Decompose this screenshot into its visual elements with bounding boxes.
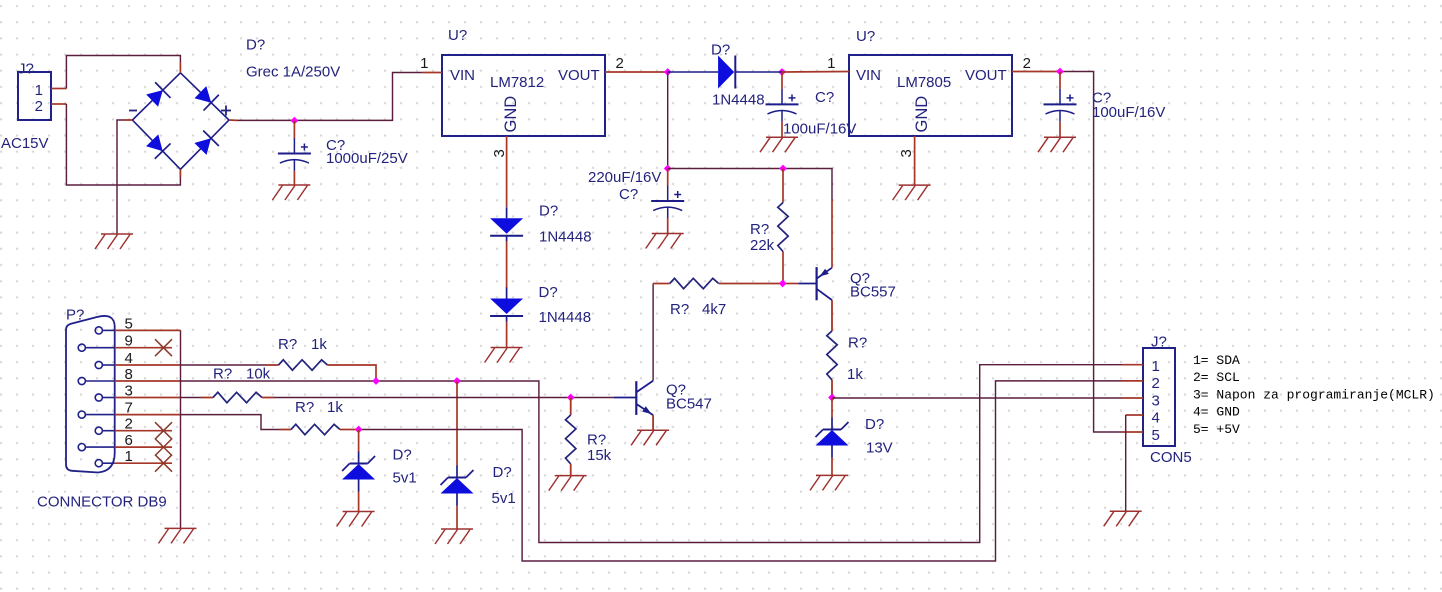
no-connect X on P1 pin 1 <box>155 455 172 472</box>
U1 label U? <box>448 27 467 44</box>
capacitor C1 value 1000uF/25V <box>326 150 408 167</box>
svg-text:CON5: CON5 <box>1150 449 1192 466</box>
wire diode D1 to diode D2 <box>506 241 508 288</box>
ground (D4) <box>810 475 848 490</box>
P1 pin 9 stub <box>115 347 172 349</box>
P1 pin 4 stub <box>115 364 181 366</box>
wire J1.1 to bridge AC top <box>66 56 180 89</box>
svg-text:VIN: VIN <box>856 67 881 84</box>
resistor R5 label R? <box>213 366 232 383</box>
svg-text:VOUT: VOUT <box>558 67 600 84</box>
Q2 emitter to ground <box>652 415 654 430</box>
svg-text:3: 3 <box>898 149 915 157</box>
bridge plus label <box>221 106 231 116</box>
svg-text:R?: R? <box>670 301 689 318</box>
J3 legend line 5 <box>1193 422 1240 437</box>
resistor R2 label R? <box>670 301 689 318</box>
connector J1 pin 2 stub <box>51 103 66 105</box>
wire 4k7 to BC557 base <box>783 283 799 285</box>
svg-text:1: 1 <box>420 55 428 72</box>
capacitor C3 100uF/16V <box>1044 72 1077 138</box>
zener D6 value 5v1 <box>492 490 516 507</box>
J3 pin 2 stub <box>1122 380 1143 382</box>
no-connect X on P1 pin 2 <box>155 422 172 439</box>
U1 pin 3 stub <box>506 136 508 162</box>
svg-text:1N4448: 1N4448 <box>712 92 765 109</box>
svg-text:5v1: 5v1 <box>393 470 417 487</box>
wire P1.4 to R4 <box>181 364 267 366</box>
resistor R6 label R? <box>587 432 606 449</box>
J3 pin 1 stub <box>1122 364 1143 366</box>
svg-text:U?: U? <box>448 27 467 44</box>
junction C1 tap <box>291 117 299 125</box>
resistor R1 22k <box>778 169 788 284</box>
svg-text:GND: GND <box>502 96 520 133</box>
zener D4 label D? <box>865 416 884 433</box>
svg-text:22k: 22k <box>750 237 775 254</box>
svg-text:GND: GND <box>913 96 931 133</box>
diode D3 label D? <box>711 42 730 59</box>
svg-text:J?: J? <box>1151 334 1167 351</box>
ground (bridge minus) <box>95 234 133 249</box>
svg-text:5= +5V: 5= +5V <box>1193 422 1240 437</box>
resistor R4 1k <box>267 360 340 370</box>
ground (R6) <box>549 476 587 491</box>
svg-text:D?: D? <box>539 203 558 220</box>
ground (J3.4) <box>1104 511 1142 526</box>
svg-text:4= GND: 4= GND <box>1193 405 1240 420</box>
J3 pin 1 number <box>1152 358 1160 375</box>
svg-text:10k: 10k <box>246 366 271 383</box>
svg-text:1: 1 <box>1152 358 1160 375</box>
P1 pin 5 circle <box>95 327 114 334</box>
resistor R6 15k <box>566 398 576 476</box>
P1 pin 7 number <box>125 400 133 417</box>
svg-text:R?: R? <box>295 399 314 416</box>
P1 pin 5 stub <box>115 329 181 331</box>
wire pin8 net to zener D6 <box>456 381 458 466</box>
svg-text:D?: D? <box>865 416 884 433</box>
wire BC547 collector up <box>653 284 670 381</box>
resistor R7 value 1k <box>327 399 343 416</box>
P1 pin 6 number <box>125 432 133 449</box>
svg-text:13V: 13V <box>866 440 893 457</box>
transistor Q2 label Q? <box>666 382 686 399</box>
svg-text:5: 5 <box>1152 427 1160 444</box>
resistor R4 label R? <box>278 336 297 353</box>
svg-text:2= SCL: 2= SCL <box>1193 370 1240 385</box>
svg-text:1: 1 <box>827 55 835 72</box>
zener D5 value 5v1 <box>393 470 417 487</box>
P1 pin 5 number <box>125 315 133 332</box>
ground (D6) <box>435 529 473 544</box>
svg-text:C?: C? <box>619 186 638 203</box>
svg-text:100uF/16V: 100uF/16V <box>783 121 856 138</box>
P1 pin 4 number <box>125 350 133 367</box>
wire junction to zener D5 <box>358 430 360 452</box>
U2 pin 3 number (rotated) <box>898 149 915 157</box>
wire bridge minus to ground <box>117 120 124 234</box>
svg-text:D?: D? <box>539 284 558 301</box>
P1 pin 2 circle <box>95 427 114 434</box>
svg-text:1N4448: 1N4448 <box>539 229 592 246</box>
connector P1 label P? <box>66 307 84 324</box>
svg-text:BC557: BC557 <box>850 284 896 301</box>
junction 220uF tap <box>664 165 672 173</box>
svg-text:2: 2 <box>35 98 43 115</box>
ground (C2) <box>760 137 798 152</box>
svg-text:C?: C? <box>815 89 834 106</box>
diode D2 1N4448 <box>490 288 523 322</box>
P1 pin 4 circle <box>95 361 114 368</box>
bridge stub right <box>229 119 237 121</box>
transistor Q2 BC547 <box>614 381 653 415</box>
junction zener D5 top <box>355 426 363 434</box>
U2 pin name GND (rotated) <box>913 96 931 133</box>
wire P1.8 to CON5 pin1 (SDA net) <box>181 365 1123 543</box>
U2 pin name VOUT <box>965 67 1007 84</box>
wire U2 pin3 to ground <box>914 162 916 185</box>
zener D4 value 13V <box>866 440 893 457</box>
U1 pin 2 number <box>616 55 624 72</box>
junction R6 top <box>567 394 575 402</box>
svg-text:LM7805: LM7805 <box>897 74 951 91</box>
P1 pin 1 stub <box>115 462 172 464</box>
svg-text:1k: 1k <box>327 399 343 416</box>
resistor R5 10k <box>201 392 274 402</box>
svg-text:P?: P? <box>66 307 84 324</box>
U1 pin name GND (rotated) <box>502 96 520 133</box>
wire MCLR node to CON5 pin3 <box>832 397 1122 399</box>
svg-text:J?: J? <box>18 61 34 78</box>
Q1 emitter stub <box>831 200 833 268</box>
U1 pin name VOUT <box>558 67 600 84</box>
diode D3 value 1N4448 <box>712 92 765 109</box>
J3 pin 3 number <box>1152 392 1160 409</box>
U1 part name LM7812 <box>490 74 544 91</box>
svg-text:R?: R? <box>750 221 769 238</box>
svg-text:1N4448: 1N4448 <box>539 309 592 326</box>
P1 pin 1 circle <box>95 460 114 467</box>
svg-text:2: 2 <box>616 55 624 72</box>
svg-text:R?: R? <box>587 432 606 449</box>
bridge diode (top-to-right arm) <box>195 86 219 110</box>
ground (Q2 emitter) <box>631 430 669 445</box>
capacitor C3 value 100uF/16V <box>1092 104 1165 121</box>
svg-text:D?: D? <box>393 447 412 464</box>
ground (U2 GND) <box>893 185 931 200</box>
resistor R2 4k7 <box>670 278 783 288</box>
svg-text:1k: 1k <box>311 336 327 353</box>
svg-text:3= Napon za programiranje(MCLR: 3= Napon za programiranje(MCLR) <box>1193 387 1435 402</box>
wire P1.7 to R7 <box>181 415 280 430</box>
svg-text:1k: 1k <box>847 366 863 383</box>
wire 12V lower rail <box>668 169 832 201</box>
capacitor C1 1000uF/25V <box>278 121 311 185</box>
svg-text:1: 1 <box>35 82 43 99</box>
diode D1 value 1N4448 <box>539 229 592 246</box>
diode D1 1N4448 <box>490 207 523 241</box>
capacitor C2 100uF/16V <box>766 72 799 137</box>
connector J3 CON5 box <box>1143 348 1175 446</box>
wire R4 to pin8 net <box>340 365 377 381</box>
regulator U1 LM7812 box <box>442 55 605 136</box>
bridge stub left <box>124 119 132 121</box>
wire diode D2 to ground <box>506 322 508 348</box>
wire J1.2 to bridge AC bottom <box>66 104 180 185</box>
no-connect X on P1 pin 9 <box>155 339 172 356</box>
capacitor C4 value 220uF/16V <box>588 169 661 186</box>
P1 pin 2 number <box>125 416 133 433</box>
svg-text:1= SDA: 1= SDA <box>1193 353 1240 368</box>
bridge stub bottom <box>179 169 181 177</box>
P1 pin 8 stub <box>115 380 181 382</box>
U2 pin 1 stub <box>782 71 849 74</box>
capacitor C4 label C? <box>619 186 638 203</box>
svg-text:1000uF/25V: 1000uF/25V <box>326 150 408 167</box>
wire R7 to SCL net <box>359 381 1122 561</box>
transistor Q2 value BC547 <box>666 396 712 413</box>
U2 label U? <box>856 28 875 45</box>
P1 pin 6 circle <box>78 444 114 451</box>
zener diode D6 5v1 <box>441 466 474 506</box>
svg-text:15k: 15k <box>587 447 612 464</box>
junction 12V rail <box>664 68 672 76</box>
U1 pin 2 stub <box>605 71 668 73</box>
resistor R3 value 1k <box>847 366 863 383</box>
svg-text:LM7812: LM7812 <box>490 74 544 91</box>
bridge stub top <box>179 62 181 73</box>
svg-text:3: 3 <box>491 149 508 157</box>
connector P1 name CONNECTOR DB9 <box>37 494 167 511</box>
svg-text:R?: R? <box>213 366 232 383</box>
transistor Q1 label Q? <box>850 270 870 287</box>
connector P1 DB9 outline <box>66 316 115 473</box>
J3 pin 5 number <box>1152 427 1160 444</box>
junction zener D6 top <box>453 377 461 385</box>
P1 pin 9 number <box>125 333 133 350</box>
U2 pin 2 stub <box>1012 71 1060 73</box>
svg-text:CONNECTOR DB9: CONNECTOR DB9 <box>37 494 167 511</box>
svg-text:Grec 1A/250V: Grec 1A/250V <box>246 64 340 81</box>
wire U1 pin3 to diode D1 <box>506 162 508 207</box>
J3 pin 2 number <box>1152 375 1160 392</box>
ground (C3) <box>1038 137 1076 152</box>
U1 pin name VIN <box>450 67 475 84</box>
U1 pin 1 number <box>420 55 428 72</box>
P1 pin 7 stub <box>115 414 181 416</box>
capacitor C2 label C? <box>815 89 834 106</box>
svg-text:2: 2 <box>1152 375 1160 392</box>
J3 legend line 2 <box>1193 370 1240 385</box>
svg-text:R?: R? <box>278 336 297 353</box>
svg-text:D?: D? <box>493 464 512 481</box>
svg-text:3: 3 <box>1152 392 1160 409</box>
wire 12V rail down <box>667 72 669 169</box>
bridge rectifier value Grec 1A/250V <box>246 64 340 81</box>
transistor Q1 BC557 <box>798 267 832 300</box>
ground (C1) <box>272 185 310 200</box>
resistor R4 value 1k <box>311 336 327 353</box>
U2 pin 3 stub <box>914 136 916 162</box>
svg-text:R?: R? <box>848 335 867 352</box>
junction R4 bottom <box>372 377 380 385</box>
svg-text:D?: D? <box>246 37 265 54</box>
P1 pin 3 circle <box>95 394 114 401</box>
svg-text:5v1: 5v1 <box>492 490 516 507</box>
svg-text:BC547: BC547 <box>666 396 712 413</box>
svg-text:220uF/16V: 220uF/16V <box>588 169 661 186</box>
resistor R5 value 10k <box>246 366 271 383</box>
ground (C4) <box>646 234 684 249</box>
resistor R1 value 22k <box>750 237 775 254</box>
P1 pin 2 stub <box>115 430 172 432</box>
resistor R3 label R? <box>848 335 867 352</box>
wire zener D5 to ground <box>358 492 360 512</box>
svg-text:VOUT: VOUT <box>965 67 1007 84</box>
U2 part name LM7805 <box>897 74 951 91</box>
Q1 collector stub <box>831 300 833 331</box>
svg-text:4: 4 <box>1152 410 1160 427</box>
resistor R6 value 15k <box>587 447 612 464</box>
P1 pin 8 number <box>125 366 133 383</box>
J3 legend line 1 <box>1193 353 1240 368</box>
bridge diode (left-to-top arm) <box>146 82 170 106</box>
wire bridge plus to U1 VIN <box>237 73 423 121</box>
svg-text:AC15V: AC15V <box>1 135 49 152</box>
capacitor C2 value 100uF/16V <box>783 121 856 138</box>
bridge minus label <box>129 110 137 112</box>
resistor R2 value 4k7 <box>702 301 726 318</box>
J3 pin 4 number <box>1152 410 1160 427</box>
connector J1 pin 1 stub <box>51 88 66 90</box>
junction MCLR node <box>828 394 836 402</box>
no-connect X on P1 pin 6 <box>155 439 172 456</box>
P1 pin 7 circle <box>78 411 114 418</box>
P1 pin 6 stub <box>115 446 172 448</box>
svg-text:4k7: 4k7 <box>702 301 726 318</box>
resistor R1 label R? <box>750 221 769 238</box>
connector J3 name CON5 <box>1150 449 1192 466</box>
ground (D5) <box>337 512 375 527</box>
zener diode D4 13V <box>816 418 849 458</box>
svg-text:VIN: VIN <box>450 67 475 84</box>
zener D6 label D? <box>493 464 512 481</box>
capacitor C4 220uF/16V <box>651 169 684 234</box>
junction 22k top <box>779 165 787 173</box>
bridge diode (left-to-bottom arm) <box>146 134 170 158</box>
svg-text:U?: U? <box>856 28 875 45</box>
P1 pin 9 circle <box>78 344 114 351</box>
U2 pin 1 number <box>827 55 835 72</box>
J3 pin 3 stub <box>1122 397 1143 399</box>
connector J1 label J? <box>18 61 34 78</box>
bridge rectifier D1 diamond outline <box>132 73 229 170</box>
bridge diode (bottom-to-right arm) <box>194 131 218 155</box>
resistor R3 1k <box>827 331 837 398</box>
junction C3 tap <box>1056 68 1064 76</box>
J3 pin 5 stub <box>1122 431 1143 433</box>
U2 pin name VIN <box>856 67 881 84</box>
wire MCLR node to zener D4 <box>831 398 833 418</box>
regulator U2 LM7805 box <box>849 55 1012 136</box>
transistor Q1 value BC557 <box>850 284 896 301</box>
wire P1.3 to R5 <box>181 397 202 399</box>
wire J3.4 to ground <box>1125 415 1127 511</box>
J3 pin 4 stub <box>1126 414 1143 416</box>
wire U2 VOUT to C3 and CON5 pin5 <box>1060 72 1122 433</box>
wire P1.5 to ground <box>180 330 182 528</box>
diode D2 value 1N4448 <box>539 309 592 326</box>
zener diode D5 5v1 <box>342 452 375 492</box>
P1 pin 1 number <box>125 448 133 465</box>
svg-text:2: 2 <box>1023 55 1031 72</box>
U1 pin 1 stub <box>423 72 442 74</box>
U1 pin 3 number (rotated) <box>491 149 508 157</box>
J3 legend line 3 <box>1193 387 1435 402</box>
svg-text:100uF/16V: 100uF/16V <box>1092 104 1165 121</box>
ground (P1.5) <box>159 528 197 543</box>
junction C2 tap <box>778 68 786 76</box>
resistor R7 label R? <box>295 399 314 416</box>
P1 pin 8 circle <box>78 377 114 384</box>
connector J1 (AC input) box <box>18 72 51 120</box>
P1 pin 3 stub <box>115 397 181 399</box>
bridge rectifier label D? <box>246 37 265 54</box>
capacitor C1 label C? <box>326 137 345 154</box>
connector J1 pin 1 number <box>35 82 43 99</box>
svg-text:D?: D? <box>711 42 730 59</box>
zener D5 label D? <box>393 447 412 464</box>
ground (D2) <box>485 348 523 363</box>
wire zener D6 to ground <box>456 506 458 530</box>
diode D2 label D? <box>539 284 558 301</box>
diode D3 1N4448 (series) <box>668 56 782 89</box>
connector J1 pin 2 number <box>35 98 43 115</box>
diode D1 label D? <box>539 203 558 220</box>
U2 pin 2 number <box>1023 55 1031 72</box>
capacitor C3 label C? <box>1092 90 1111 107</box>
P1 pin 3 number <box>125 383 133 400</box>
wire R5 to BC547 base <box>274 397 614 399</box>
resistor R7 1k <box>279 424 359 434</box>
connector J1 value AC15V <box>1 135 49 152</box>
junction base node <box>779 280 787 288</box>
wire zener D4 to ground <box>831 458 833 476</box>
J3 legend line 4 <box>1193 405 1240 420</box>
connector J3 label J? <box>1151 334 1167 351</box>
